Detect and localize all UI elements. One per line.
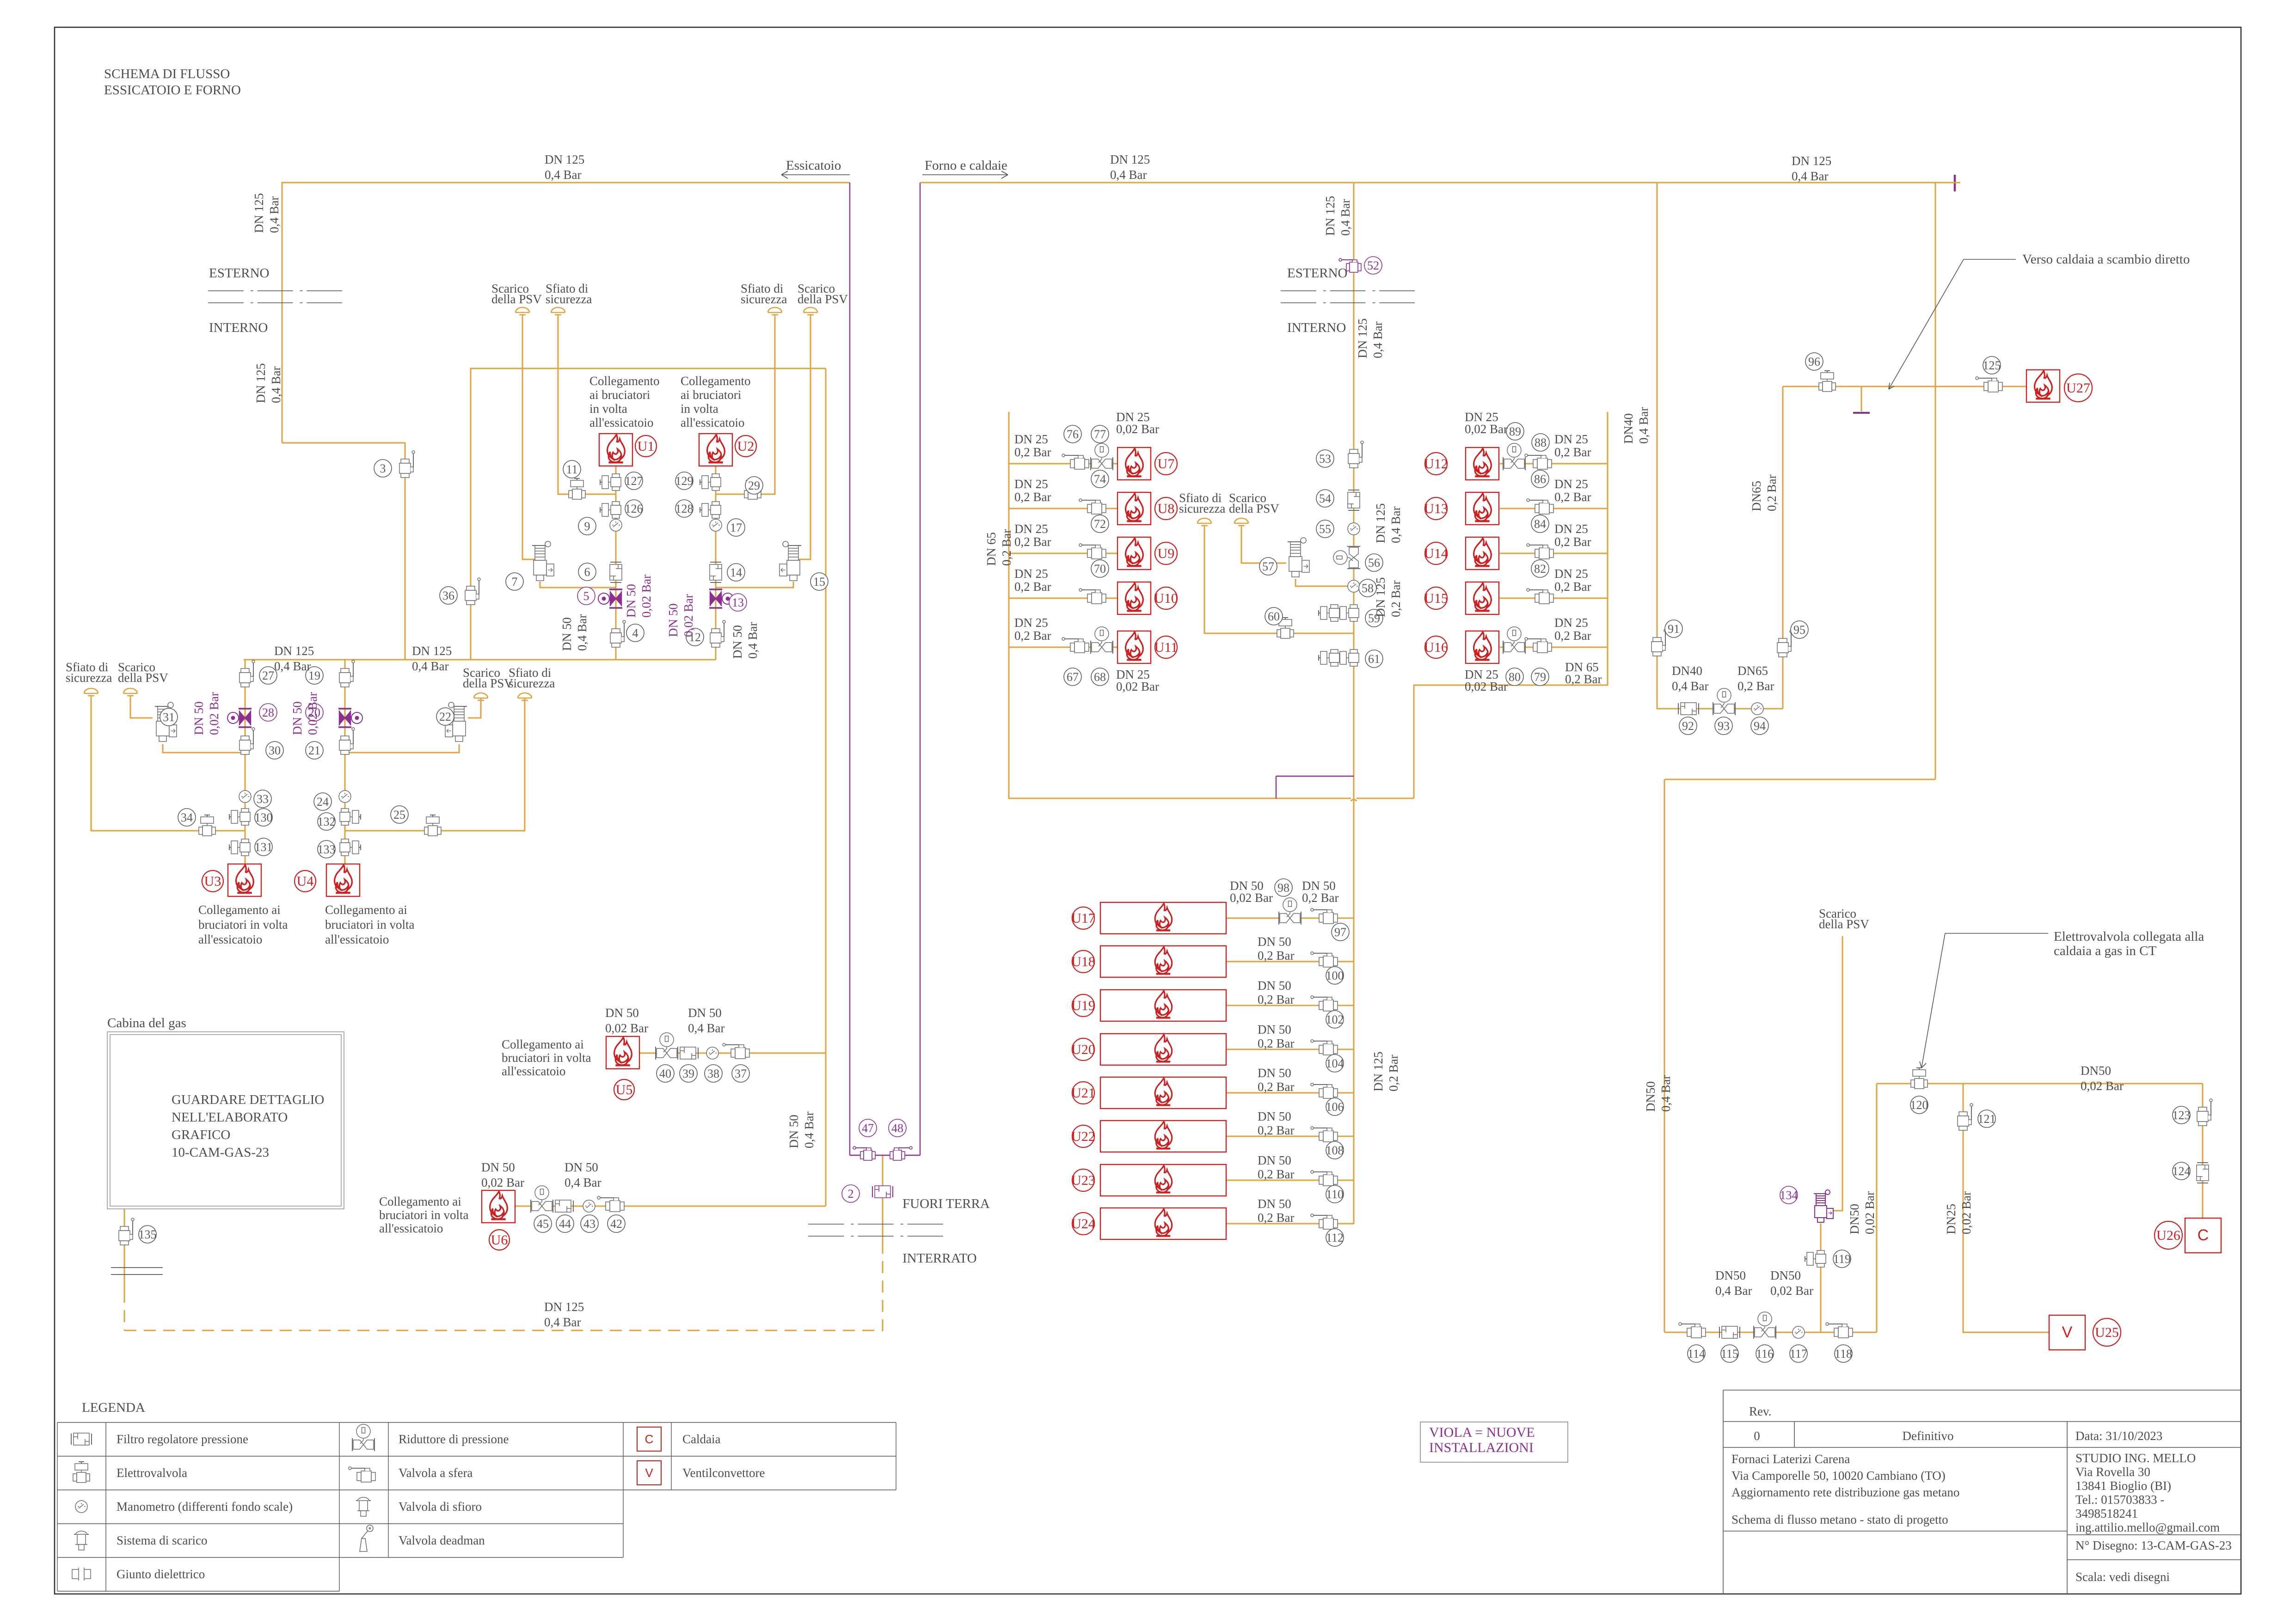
burner label U19 <box>1071 994 1095 1017</box>
burner U9 <box>1117 537 1151 570</box>
svg-text:4: 4 <box>632 626 638 640</box>
valve 37 ball <box>723 1043 749 1059</box>
burner U24 <box>1100 1208 1226 1239</box>
manometer 58 <box>1348 580 1360 592</box>
node 133 <box>318 840 336 858</box>
node 28 <box>259 704 277 721</box>
boundary fuori terra-interrato <box>808 1224 943 1236</box>
valve 30 ball <box>239 728 255 754</box>
valve 53 ball <box>1348 441 1363 468</box>
svg-text:INTERRATO: INTERRATO <box>902 1251 977 1266</box>
riduttore 45 <box>531 1186 553 1213</box>
wire U15 row <box>1500 598 1608 599</box>
svg-text:0: 0 <box>1754 1429 1760 1443</box>
ball 96 elettro <box>1819 371 1836 392</box>
node 3 <box>374 460 392 477</box>
burner label U16 <box>1424 636 1448 658</box>
svg-text:U9: U9 <box>1158 546 1175 561</box>
node 92 <box>1679 717 1697 735</box>
burner U23 <box>1100 1164 1226 1196</box>
legend scarico <box>74 1531 89 1550</box>
svg-text:U20: U20 <box>1071 1042 1095 1057</box>
wire U1 drop <box>615 466 617 660</box>
svg-text:47: 47 <box>862 1121 874 1135</box>
valve 133 elettro <box>340 839 361 856</box>
wire new tie-in <box>1276 776 1354 777</box>
node 121 <box>1978 1110 1996 1128</box>
manometer 117 <box>1793 1326 1805 1338</box>
node 19 <box>306 667 323 684</box>
svg-text:45: 45 <box>537 1217 549 1231</box>
vent scarico U2 <box>804 307 817 317</box>
node 33 <box>254 790 271 808</box>
wire U12 row <box>1500 463 1608 465</box>
node 37 <box>732 1065 749 1082</box>
burner label U20 <box>1071 1038 1095 1060</box>
burner label U21 <box>1071 1082 1095 1104</box>
node 70 <box>1091 560 1109 577</box>
ball 67 <box>1062 637 1089 653</box>
wire U2 relief outlet <box>716 582 793 588</box>
legend deadman <box>360 1525 373 1551</box>
ball 108 <box>1311 1127 1338 1142</box>
vent sfiato forno <box>1197 518 1211 528</box>
burner label U13 <box>1424 497 1448 520</box>
svg-text:Valvola a sfera: Valvola a sfera <box>399 1466 473 1480</box>
legend caldaia C <box>637 1427 661 1451</box>
node 106 <box>1326 1098 1344 1115</box>
burner U7 <box>1117 447 1151 480</box>
wire main to manifold <box>1357 798 1414 799</box>
ball 104 <box>1311 1040 1338 1055</box>
svg-text:U23: U23 <box>1071 1173 1095 1188</box>
burner label U11 <box>1154 636 1178 658</box>
legend sfera <box>349 1467 375 1482</box>
legend table <box>57 1422 896 1591</box>
svg-text:126: 126 <box>625 502 643 515</box>
node 42 <box>608 1215 625 1232</box>
wire DN125 riser jog <box>282 443 405 660</box>
node 119 <box>1833 1250 1851 1268</box>
node 58 <box>1359 579 1376 597</box>
wire DN50 drop <box>1664 779 1665 1332</box>
svg-text:54: 54 <box>1319 492 1331 505</box>
node 102 <box>1326 1011 1344 1028</box>
svg-text:13: 13 <box>732 596 744 609</box>
svg-text:44: 44 <box>559 1217 571 1231</box>
node 57 <box>1259 558 1277 575</box>
wire stub cap <box>1853 412 1870 414</box>
svg-text:76: 76 <box>1067 428 1079 441</box>
wire U19 branch <box>1226 1005 1354 1006</box>
wire U12-16 collector <box>1414 412 1608 798</box>
node 11 <box>563 460 581 478</box>
svg-text:V: V <box>2062 1324 2073 1341</box>
svg-text:U24: U24 <box>1071 1216 1095 1232</box>
ball 72 <box>1079 544 1106 559</box>
node 5 <box>577 587 595 605</box>
node 76 <box>1064 425 1081 443</box>
wire forno sfiato stem <box>1204 528 1354 633</box>
svg-text:25: 25 <box>393 808 405 821</box>
valve 60 elettro <box>1277 618 1294 638</box>
svg-text:82: 82 <box>1534 562 1546 576</box>
node 130 <box>255 809 273 826</box>
ball 114 <box>1679 1323 1706 1338</box>
svg-text:48: 48 <box>891 1121 903 1135</box>
burner label U8 <box>1155 497 1177 520</box>
svg-text:118: 118 <box>1835 1347 1852 1360</box>
svg-text:Valvola di sfioro: Valvola di sfioro <box>399 1500 482 1514</box>
valve 4 ball <box>610 620 626 647</box>
filter 14 <box>710 562 722 582</box>
svg-text:N° Disegno: 13-CAM-GAS-23: N° Disegno: 13-CAM-GAS-23 <box>2075 1538 2232 1552</box>
node 48 <box>889 1119 906 1137</box>
manometer 94 <box>1751 703 1763 715</box>
valve 61 elettro b <box>1319 650 1339 666</box>
svg-text:80: 80 <box>1509 670 1521 684</box>
wire new line essicatoio <box>849 183 850 1155</box>
boundary esterno-interno left <box>208 291 342 303</box>
burner label U9 <box>1155 542 1177 564</box>
wire U3 sfiato stem <box>91 698 245 831</box>
riduttore 89 <box>1503 443 1525 470</box>
svg-text:34: 34 <box>181 811 193 824</box>
riduttore 116 <box>1754 1312 1776 1339</box>
filter 2 <box>872 1186 893 1198</box>
svg-text:Schema di flusso metano - sta: Schema di flusso metano - stato di proge… <box>1731 1513 1948 1526</box>
svg-text:DN 50 0,2 Bar: DN 50 0,2 Bar <box>1258 935 1295 962</box>
burner label U12 <box>1424 453 1448 475</box>
valve 27 ball <box>239 660 255 687</box>
valve 3 ball <box>399 451 415 478</box>
burner label U6 <box>489 1230 510 1250</box>
node 123 <box>2173 1106 2191 1124</box>
wire right header drop <box>1935 183 1936 779</box>
riduttore 56 <box>1333 546 1360 569</box>
burner label U27 <box>2064 374 2092 402</box>
svg-text:DN 50 0,02 Bar: DN 50 0,02 Bar <box>1230 879 1273 905</box>
wire U24 branch <box>1226 1223 1354 1225</box>
svg-text:U26: U26 <box>2156 1228 2180 1243</box>
manometer 17 <box>710 519 722 531</box>
wire U23 branch <box>1226 1180 1354 1181</box>
ball 95 <box>1777 630 1793 657</box>
wire U18 branch <box>1226 961 1354 962</box>
wire riser to filter2 <box>882 1155 884 1248</box>
valve 132 elettro <box>340 809 361 825</box>
elettro 120 <box>1911 1068 1928 1089</box>
node 30 <box>266 742 283 759</box>
valve 52 ball <box>1339 258 1361 272</box>
legend filtro <box>71 1433 92 1445</box>
node 7 <box>506 573 523 590</box>
node 129 <box>675 472 694 490</box>
node 44 <box>556 1215 574 1232</box>
wire U11 row <box>1009 647 1117 648</box>
svg-text:C: C <box>2198 1226 2209 1244</box>
ball 125 <box>1976 377 2002 392</box>
svg-text:DN 50 0,2 Bar: DN 50 0,2 Bar <box>1258 1153 1295 1181</box>
svg-text:55: 55 <box>1319 522 1331 536</box>
manometer 9 <box>610 519 622 531</box>
burner U6 <box>482 1190 515 1223</box>
wire DN125 header essicatoio <box>282 183 850 443</box>
svg-text:FUORI TERRA: FUORI TERRA <box>902 1196 990 1211</box>
valve 21 ball <box>339 728 355 754</box>
svg-text:DN 25 0,2 Bar: DN 25 0,2 Bar <box>1014 432 1051 459</box>
node 110 <box>1326 1185 1344 1203</box>
svg-text:U13: U13 <box>1424 501 1448 516</box>
wire U17 branch <box>1226 918 1354 919</box>
wire new line bottom header <box>850 1155 920 1156</box>
burner U19 <box>1100 990 1226 1021</box>
manometer 24 <box>339 791 351 803</box>
svg-text:U3: U3 <box>204 874 221 889</box>
svg-text:95: 95 <box>1793 623 1805 637</box>
wire U10 row <box>1009 598 1117 599</box>
ball 118 <box>1826 1323 1853 1338</box>
ventilconvettore V box <box>2049 1315 2085 1350</box>
svg-text:7: 7 <box>512 575 518 588</box>
svg-text:V: V <box>645 1466 653 1480</box>
burner label U18 <box>1071 950 1095 973</box>
node 125 <box>1983 356 2001 374</box>
filter 124 <box>2197 1163 2209 1183</box>
svg-text:123: 123 <box>2173 1109 2191 1122</box>
wire U4 scarico PSV stem <box>468 698 481 718</box>
node 82 <box>1531 560 1549 577</box>
node 91 <box>1665 620 1682 637</box>
burner U8 <box>1117 492 1151 525</box>
ball 88 <box>1525 454 1552 469</box>
svg-text:DN 25 0,2 Bar: DN 25 0,2 Bar <box>1014 477 1051 504</box>
wire U9 row <box>1009 553 1117 554</box>
ball 97 <box>1311 908 1338 924</box>
wire 134 drop <box>1820 1223 1822 1332</box>
svg-text:DN 25 0,2 Bar: DN 25 0,2 Bar <box>1554 522 1591 549</box>
svg-text:Rev.: Rev. <box>1749 1404 1772 1418</box>
wire forno relief outlet <box>1295 579 1354 586</box>
wire forno scarico stem <box>1241 528 1286 563</box>
elettro 119 <box>1805 1250 1826 1267</box>
relief 57 <box>1288 538 1309 577</box>
svg-text:DN 25 0,2 Bar: DN 25 0,2 Bar <box>1014 616 1051 643</box>
svg-text:102: 102 <box>1326 1013 1344 1026</box>
svg-text:57: 57 <box>1262 560 1274 573</box>
svg-text:Giunto dielettrico: Giunto dielettrico <box>117 1567 205 1581</box>
wire DN50 U5U6 riser <box>825 368 827 1206</box>
svg-text:114: 114 <box>1688 1347 1705 1360</box>
node 61 <box>1365 650 1383 668</box>
relief 22 <box>445 702 467 742</box>
wire U20 branch <box>1226 1049 1354 1050</box>
node 27 <box>259 667 277 684</box>
wire cabina feed dashed <box>124 1291 125 1330</box>
node 6 <box>578 563 596 581</box>
svg-text:56: 56 <box>1368 556 1380 570</box>
node 88 <box>1532 434 1549 451</box>
wire forno main riser <box>1353 183 1355 801</box>
valve 130 elettro <box>229 809 250 825</box>
node 13 <box>729 594 747 611</box>
valve 59 elettro b <box>1319 605 1339 621</box>
svg-text:Elettrovalvola: Elettrovalvola <box>117 1466 187 1480</box>
node 14 <box>727 564 745 581</box>
ball 86 <box>1527 499 1553 514</box>
node 9 <box>578 517 596 535</box>
svg-text:119: 119 <box>1833 1252 1851 1266</box>
ball 70 <box>1079 588 1106 604</box>
node 131 <box>255 838 273 856</box>
relief 31 <box>155 702 177 742</box>
svg-text:Filtro regolatore pressione: Filtro regolatore pressione <box>117 1432 248 1446</box>
svg-text:106: 106 <box>1326 1100 1344 1114</box>
svg-text:129: 129 <box>675 474 694 488</box>
wire U14 row <box>1500 553 1608 554</box>
burner U14 <box>1466 537 1499 570</box>
svg-text:DN 25 0,02 Bar: DN 25 0,02 Bar <box>1116 668 1159 693</box>
svg-text:6: 6 <box>584 565 590 579</box>
svg-text:133: 133 <box>318 843 336 856</box>
svg-text:DN 50 0,2 Bar: DN 50 0,2 Bar <box>1258 1109 1295 1137</box>
wire DN65 takeoff U7-11 <box>1009 412 1351 798</box>
burner U18 <box>1100 946 1226 977</box>
wire caldaia bottom line <box>1664 1332 1877 1333</box>
svg-text:Essicatoio: Essicatoio <box>786 158 841 173</box>
svg-text:135: 135 <box>139 1228 157 1241</box>
svg-text:86: 86 <box>1534 472 1546 486</box>
burner label U26 <box>2155 1221 2182 1249</box>
svg-text:U5: U5 <box>616 1082 633 1097</box>
node 100 <box>1326 967 1344 984</box>
relief valve 134 <box>1814 1190 1833 1222</box>
burner U13 <box>1466 492 1499 525</box>
svg-text:94: 94 <box>1754 719 1766 733</box>
node 108 <box>1326 1141 1344 1159</box>
svg-text:DN 25 0,2 Bar: DN 25 0,2 Bar <box>1554 616 1591 643</box>
svg-text:DN 50 0,2 Bar: DN 50 0,2 Bar <box>1258 1066 1295 1094</box>
svg-text:U10: U10 <box>1154 591 1178 606</box>
svg-text:128: 128 <box>675 502 694 515</box>
node 22 <box>436 708 454 725</box>
svg-text:70: 70 <box>1094 562 1106 576</box>
node 114 <box>1688 1345 1705 1362</box>
vent scarico U1 <box>516 307 529 317</box>
vent scarico U4 <box>474 693 488 703</box>
node 68 <box>1091 668 1109 686</box>
svg-text:U11: U11 <box>1154 640 1178 655</box>
svg-text:117: 117 <box>1790 1347 1807 1360</box>
node 36 <box>440 587 457 604</box>
node 117 <box>1790 1345 1807 1362</box>
node 25 <box>391 806 408 823</box>
svg-text:Ventilconvettore: Ventilconvettore <box>682 1466 765 1480</box>
svg-text:74: 74 <box>1094 472 1106 486</box>
svg-text:U22: U22 <box>1071 1129 1095 1144</box>
burner label U22 <box>1071 1125 1095 1147</box>
node 135 <box>139 1226 157 1243</box>
burner U12 <box>1466 447 1499 480</box>
wire U22 branch <box>1226 1136 1354 1137</box>
wire U3 relief outlet <box>163 744 245 753</box>
svg-text:DN 25 0,2 Bar: DN 25 0,2 Bar <box>1014 522 1051 549</box>
svg-text:U27: U27 <box>2066 380 2090 396</box>
node 72 <box>1091 515 1109 533</box>
svg-text:43: 43 <box>583 1217 595 1231</box>
vent sfiato U3 <box>84 688 98 698</box>
burner U1 <box>599 434 632 466</box>
svg-text:115: 115 <box>1721 1347 1738 1360</box>
svg-text:31: 31 <box>163 711 175 724</box>
riduttore 40 <box>656 1033 678 1060</box>
svg-text:132: 132 <box>318 815 336 828</box>
valve 34 elettro+ball <box>199 815 215 836</box>
svg-text:DN 25 0,02 Bar: DN 25 0,02 Bar <box>1465 410 1508 436</box>
legend ventilconvettore V <box>637 1461 661 1485</box>
node 120 <box>1910 1096 1928 1114</box>
valve 25 elettro+ball <box>424 815 441 836</box>
title block <box>1723 1390 2241 1594</box>
valve 47 ball <box>853 1146 875 1160</box>
viola nota box <box>1420 1422 1568 1462</box>
ball 100 <box>1311 952 1338 967</box>
svg-text:97: 97 <box>1334 925 1346 939</box>
wire right link <box>1664 779 1935 780</box>
svg-text:LEGENDA: LEGENDA <box>82 1400 145 1415</box>
burner U17 <box>1100 902 1226 934</box>
wire DN125 buried dashed <box>124 1248 883 1330</box>
riduttore 80 <box>1503 627 1525 654</box>
node 39 <box>680 1065 697 1082</box>
burner label U2 <box>735 435 756 457</box>
node 31 <box>160 708 178 726</box>
svg-text:DN 50 0,2 Bar: DN 50 0,2 Bar <box>1258 979 1295 1006</box>
valve 36 ball <box>465 578 480 605</box>
manometer 33 <box>239 791 251 803</box>
svg-text:U25: U25 <box>2095 1325 2119 1340</box>
wire U2 drop <box>715 466 717 660</box>
svg-text:120: 120 <box>1910 1098 1928 1112</box>
svg-text:INTERNO: INTERNO <box>1287 320 1346 335</box>
svg-text:Forno e caldaie: Forno e caldaie <box>925 158 1007 173</box>
svg-text:Sfiato di sicurezza: Sfiato di sicurezza <box>509 666 555 690</box>
svg-text:U7: U7 <box>1158 456 1175 472</box>
svg-text:Verso caldaia a scambio dirett: Verso caldaia a scambio diretto <box>2022 252 2190 267</box>
wire DN50 002 riser <box>1876 1084 1878 1332</box>
node 38 <box>705 1065 722 1082</box>
manometer 38 <box>706 1047 718 1059</box>
svg-text:39: 39 <box>682 1067 694 1080</box>
svg-text:77: 77 <box>1094 428 1106 441</box>
svg-text:DN 25 0,2 Bar: DN 25 0,2 Bar <box>1554 567 1591 594</box>
riduttore 98 <box>1279 898 1301 925</box>
burner U5 <box>606 1036 639 1069</box>
wire U21 branch <box>1226 1092 1354 1094</box>
svg-text:116: 116 <box>1756 1347 1774 1360</box>
svg-text:U15: U15 <box>1424 591 1448 606</box>
wire U4 relief outlet <box>345 744 459 753</box>
svg-text:96: 96 <box>1808 355 1820 368</box>
valve 127 elettro <box>600 474 621 490</box>
node 97 <box>1332 923 1349 941</box>
wire DN50 002 header <box>1877 1083 2203 1085</box>
svg-text:92: 92 <box>1682 719 1694 733</box>
valve 5 butterfly <box>598 589 622 608</box>
filter 54 <box>1348 490 1360 510</box>
burner label U4 <box>295 870 316 892</box>
node 34 <box>178 809 196 826</box>
